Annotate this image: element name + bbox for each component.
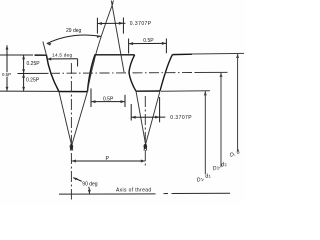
dimension D2,d2 vertical right — [220, 73, 223, 168]
wire groove1 centerline vertical — [70, 63, 72, 200]
svg-text:0.5P: 0.5P — [143, 38, 154, 44]
dimension 0.25P lower vertical — [22, 74, 25, 92]
wire groove1 right flank extension up to apex — [87, 3, 113, 92]
svg-text:0.3707P: 0.3707P — [130, 21, 152, 27]
svg-text:0.5P: 0.5P — [2, 72, 11, 77]
dimension 0.5P middle (ridge at pitch) — [91, 89, 125, 108]
svg-text:0.25P: 0.25P — [27, 61, 41, 67]
wire root extension left — [0, 90, 59, 92]
label 0.5P left — [2, 72, 12, 76]
dimension D,d vertical right — [236, 54, 239, 152]
wire groove2 centerline vertical — [144, 96, 146, 168]
wire groove1 left flank extension up — [43, 42, 47, 56]
wire groove1 left flank — [47, 55, 59, 91]
wire groove2 root flat — [136, 90, 160, 92]
wire groove2 right flank extension down — [144, 91, 160, 151]
wire top V apex overshoot — [112, 1, 114, 5]
wire crest segment right — [172, 53, 192, 55]
dimension 0.3707P top — [97, 18, 125, 34]
wire axis of thread dash-dot — [59, 192, 230, 195]
svg-text:D, d: D, d — [229, 149, 242, 159]
wire root extension right — [161, 90, 210, 92]
node groove1 V apex ink blob — [70, 145, 72, 149]
dimension 0.5P left vertical — [6, 45, 9, 91]
wire groove2 left flank extension down — [136, 91, 147, 150]
dimension 0.25P upper vertical — [22, 55, 25, 74]
dimension P pitch — [71, 160, 145, 163]
dimension 29 deg arc — [47, 35, 101, 46]
node groove2 V apex ink blob — [144, 145, 146, 149]
wire pitch extension right — [196, 71, 228, 73]
wire groove1 right flank — [87, 55, 95, 92]
dimension D1,d1 vertical right — [204, 91, 207, 174]
wire crest segment left — [35, 54, 47, 56]
dimension 0.5P top (groove2) — [129, 39, 167, 54]
wire groove2 left flank (bowed) — [129, 55, 136, 91]
svg-text:Axis of thread: Axis of thread — [116, 188, 151, 194]
svg-text:D2, d2: D2, d2 — [212, 161, 228, 173]
wire pitch line solid left — [18, 72, 49, 74]
dimension 14.5 deg leader — [47, 58, 78, 67]
wire pitch line dash-dot — [50, 72, 196, 75]
wire groove2 right flank (bowed) — [160, 55, 172, 91]
dimension 90 deg leaders — [73, 178, 91, 194]
svg-text:0.25P: 0.25P — [26, 78, 40, 84]
wire crest extension left — [0, 54, 33, 56]
wire groove1 root flat — [59, 91, 88, 93]
dimension 0.3707P root (groove2) — [131, 97, 165, 122]
svg-text:D1, d1: D1, d1 — [196, 172, 212, 183]
wire top V right leg — [111, 1, 124, 73]
svg-text:P: P — [106, 156, 110, 162]
wire crest extension right — [192, 52, 244, 55]
svg-text:29 deg: 29 deg — [66, 28, 82, 34]
svg-text:14.5 deg: 14.5 deg — [52, 53, 72, 58]
wire groove1 left flank extension down — [59, 92, 73, 151]
svg-text:90 deg: 90 deg — [82, 181, 98, 187]
svg-text:0.5P: 0.5P — [103, 96, 114, 102]
wire groove1 right flank extension down — [70, 92, 87, 151]
svg-text:0.3707P: 0.3707P — [170, 115, 192, 121]
wire ridge crest — [95, 54, 135, 56]
